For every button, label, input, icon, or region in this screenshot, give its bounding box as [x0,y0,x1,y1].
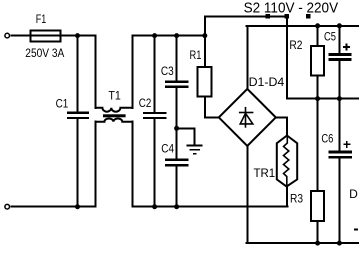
svg-text:250V 3A: 250V 3A [25,48,64,60]
svg-text:C4: C4 [161,141,174,155]
svg-text:S2 110V - 220V: S2 110V - 220V [244,0,339,16]
svg-text:F1: F1 [36,12,47,26]
svg-text:R3: R3 [290,192,303,206]
svg-text:T1: T1 [108,89,121,103]
svg-text:D1-D4: D1-D4 [249,75,285,89]
svg-text:C1: C1 [56,97,69,111]
svg-text:C3: C3 [161,64,174,78]
svg-text:C2: C2 [139,96,152,110]
svg-text:C6: C6 [321,132,333,146]
svg-text:D: D [349,187,358,201]
svg-text:R2: R2 [289,38,302,52]
svg-text:C5: C5 [324,30,336,44]
svg-text:TR1: TR1 [254,166,276,180]
svg-text:R1: R1 [190,48,202,62]
